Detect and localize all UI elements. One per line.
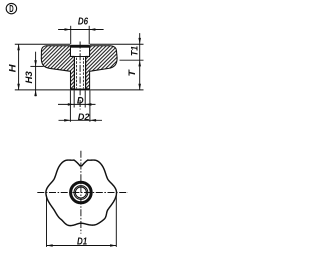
dimension D6: arrows [65, 28, 71, 31]
dimension D2: extension lines [69, 91, 71, 122]
bushing upper step left wall [70, 48, 72, 56]
dimension T1: middle extension line [120, 59, 144, 61]
bushing tube right wall [85, 57, 87, 89]
dimension D: extension lines [73, 91, 75, 108]
svg-text:D: D [9, 4, 13, 15]
svg-text:T1: T1 [129, 46, 139, 56]
svg-text:D2: D2 [78, 111, 91, 122]
dimension H: arrows [17, 44, 20, 50]
dimension T1/T: dimension line [139, 33, 141, 90]
dimension T1/T: arrows [138, 38, 141, 44]
bushing tube left wall [74, 57, 76, 89]
bushing collar (blackened thin section) [70, 45, 89, 48]
bushing upper step right wall [89, 48, 91, 56]
dimension T1: top extension line (right) [90, 43, 144, 45]
dimension D1: extension lines [46, 195, 48, 247]
dimension D6: dimension line [58, 29, 104, 31]
section view: left lobe cut (hatched) [41, 46, 74, 89]
top view: thread circle [75, 187, 86, 198]
form label circle (D) [6, 3, 16, 15]
section vertical centerline [79, 42, 81, 110]
top view: horizontal centerline [37, 192, 128, 194]
top view: bore circle [74, 186, 88, 200]
dimension D: arrows [68, 103, 74, 106]
hub bottom face (thick) [70, 89, 89, 91]
thread dashed line right [82, 58, 84, 89]
dimension H: dimension line [18, 44, 20, 90]
svg-text:H: H [8, 63, 19, 72]
svg-text:D1: D1 [77, 237, 87, 248]
dimension H: top extension line [15, 43, 70, 45]
dimension D6: extension lines [70, 26, 72, 44]
dimension D2: arrows [64, 119, 70, 122]
svg-text:D6: D6 [78, 16, 89, 27]
top view: star knob outline (6 lobes) [46, 160, 117, 226]
dimension D: dimension line [58, 103, 96, 105]
dimension D2: dimension line [59, 119, 103, 121]
dimension D1: dimension line [47, 245, 117, 247]
dimension H3: dimension line [35, 52, 37, 96]
top view: vertical centerline [80, 151, 82, 234]
bore top line [70, 56, 90, 58]
dimension D1: arrows (inside, pointing out) [47, 244, 53, 247]
top view: bushing collar annulus (thick black ring) [71, 182, 92, 203]
svg-text:H3: H3 [24, 71, 34, 83]
svg-text:D: D [77, 94, 84, 105]
shared bottom extension line (H, H3, T) [15, 89, 144, 91]
section view: right lobe cut (hatched) [86, 46, 117, 89]
dimension H3: arrows (outside) [34, 60, 37, 66]
dimension H3: top extension line [30, 65, 43, 67]
thread dashed line left [76, 58, 78, 89]
